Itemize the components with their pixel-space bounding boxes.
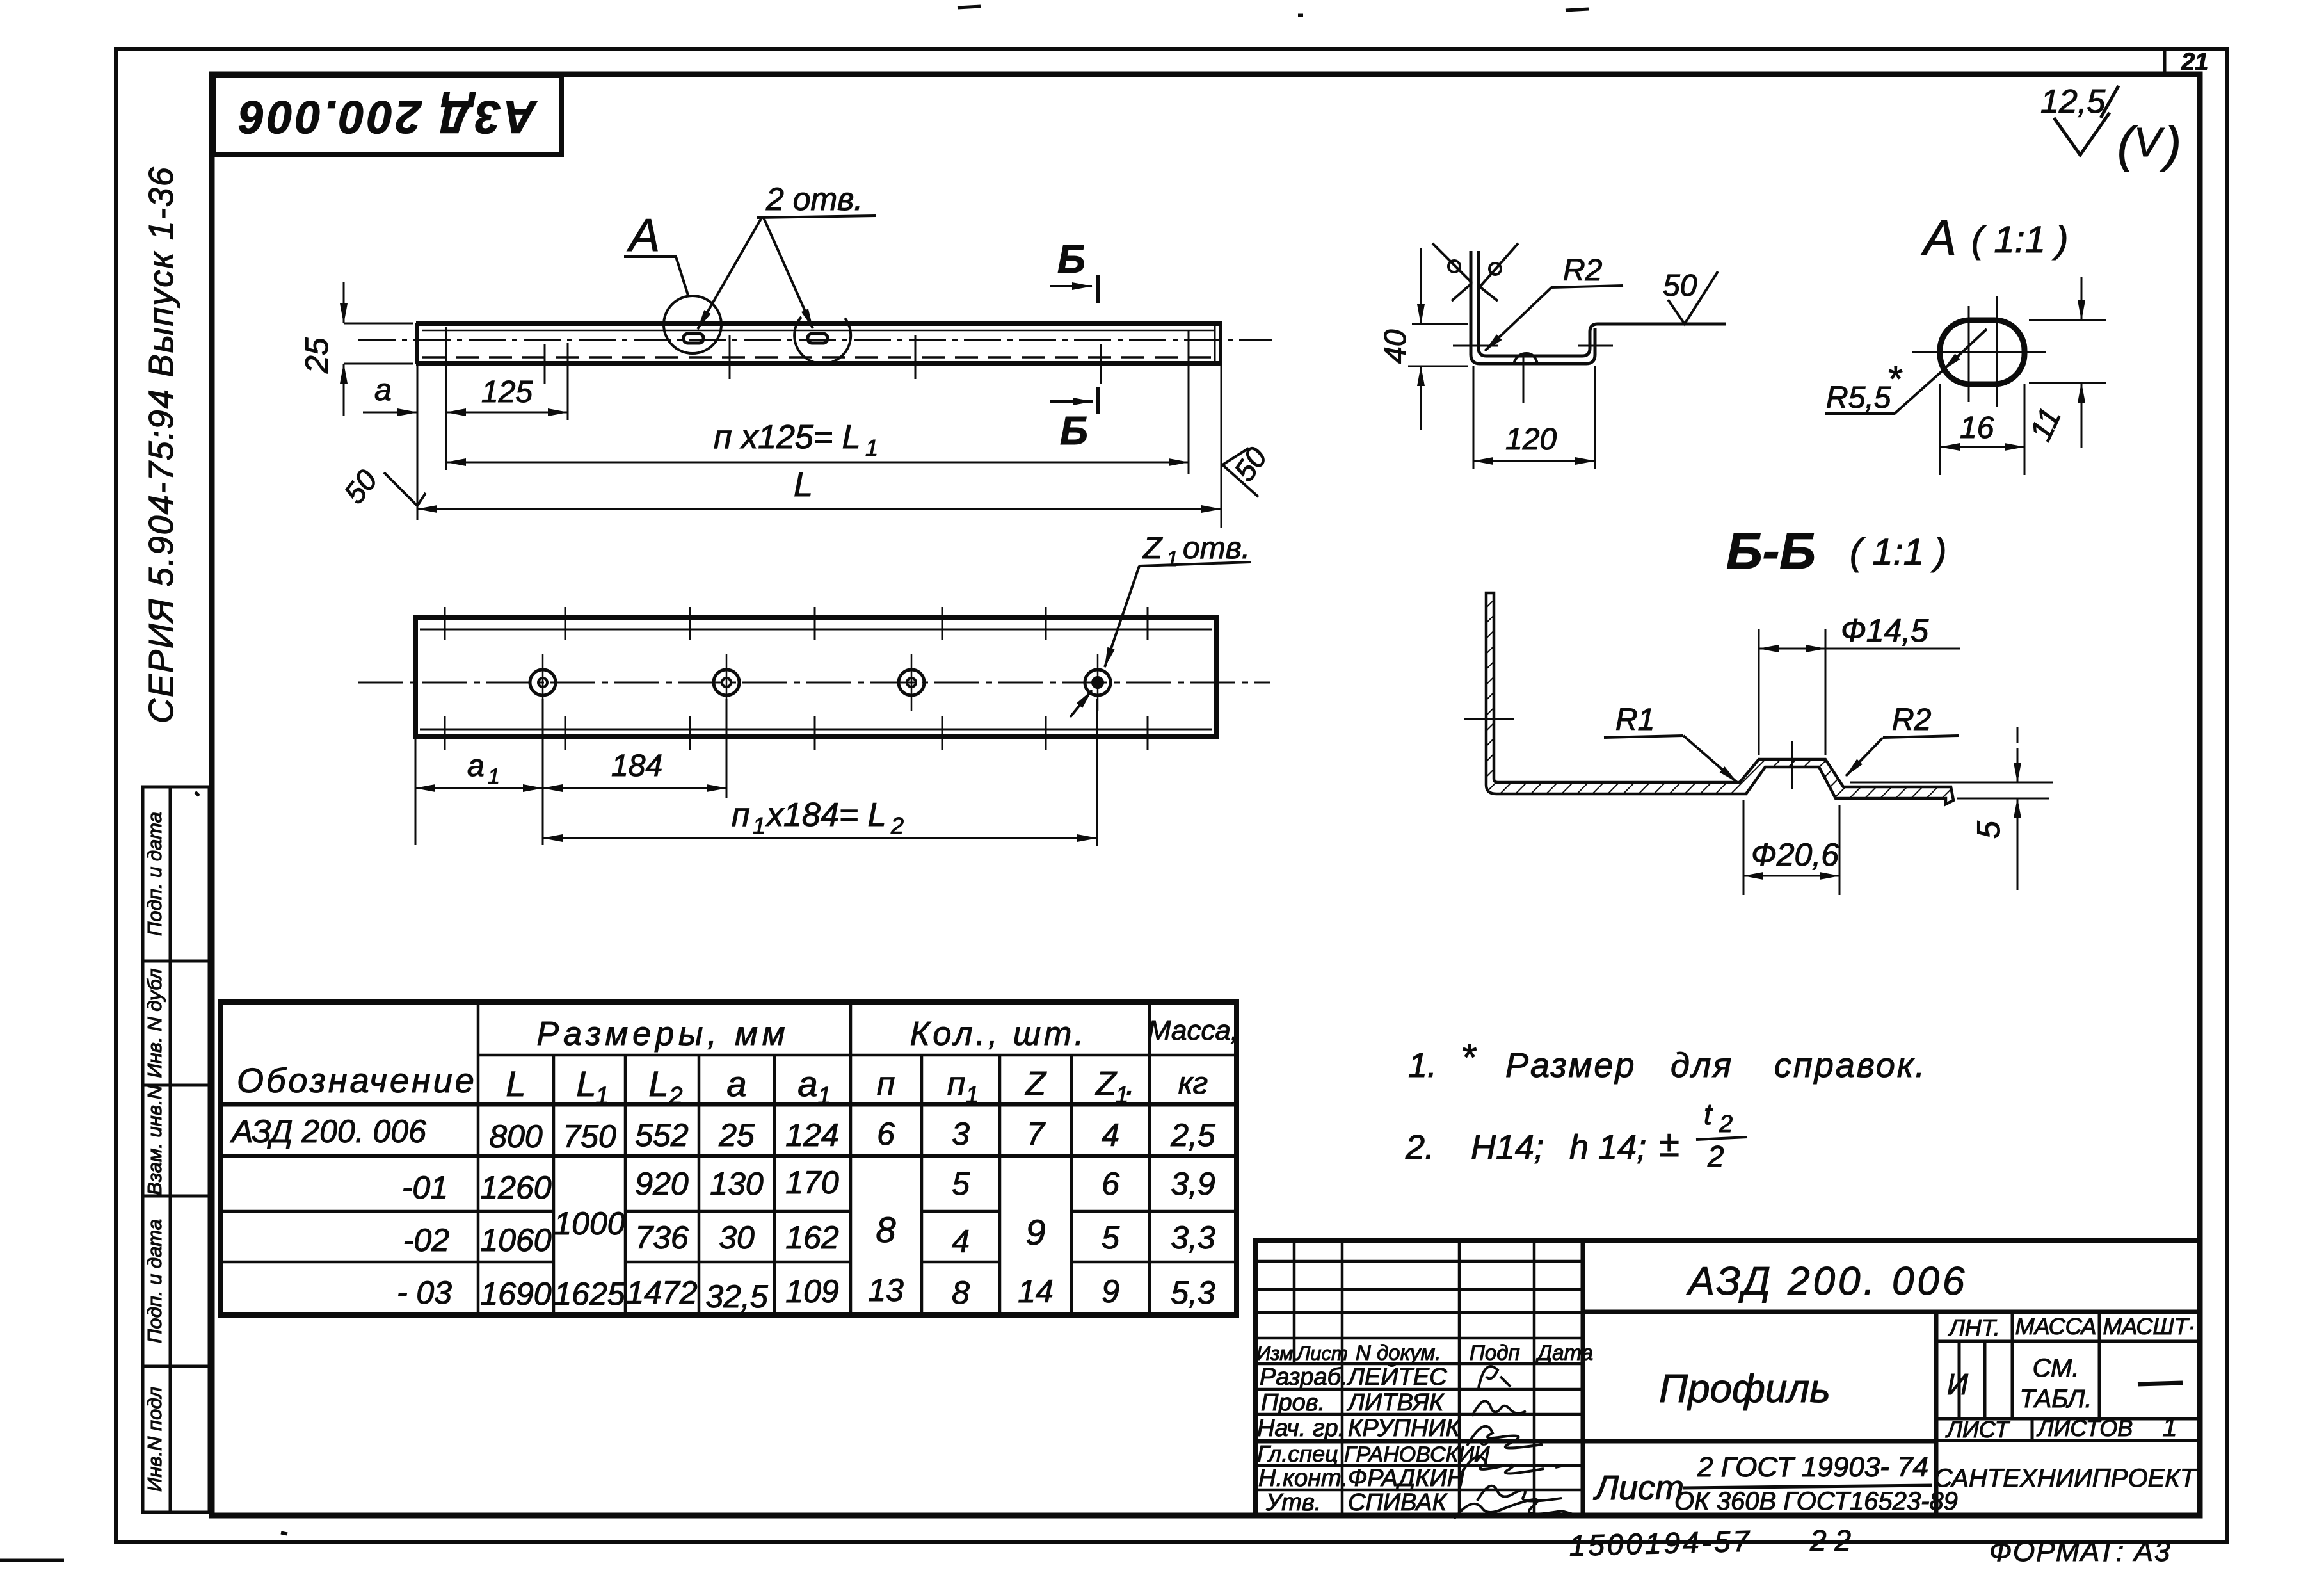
svg-text:АЗД 200. 006: АЗД 200. 006 — [1686, 1259, 1968, 1304]
svg-text:Z: Z — [1024, 1065, 1047, 1102]
svg-text:170: 170 — [785, 1165, 839, 1200]
svg-text:2: 2 — [1707, 1140, 1724, 1173]
svg-text:Z: Z — [1142, 531, 1163, 565]
svg-text:R1: R1 — [1615, 703, 1655, 737]
svg-text:( 1:1 ): ( 1:1 ) — [1971, 219, 2069, 261]
svg-text:Гл.спец: Гл.спец — [1257, 1441, 1338, 1467]
svg-text:1: 1 — [1166, 547, 1178, 571]
svg-text:2: 2 — [1719, 1111, 1733, 1138]
svg-text:1.: 1. — [1408, 1046, 1437, 1085]
svg-text:Б: Б — [1057, 238, 1086, 282]
svg-text:ЛЕЙТЕС: ЛЕЙТЕС — [1346, 1362, 1447, 1391]
svg-text:Подп: Подп — [1470, 1341, 1520, 1364]
svg-text:R2: R2 — [1563, 254, 1602, 287]
svg-text:1000: 1000 — [554, 1206, 625, 1241]
svg-text:12,5: 12,5 — [2040, 83, 2106, 120]
svg-text:184: 184 — [611, 749, 662, 783]
svg-text:L: L — [794, 465, 813, 504]
svg-text:Утв.: Утв. — [1265, 1489, 1321, 1516]
svg-text:130: 130 — [710, 1166, 764, 1202]
svg-text:t: t — [1704, 1097, 1713, 1131]
svg-text:5: 5 — [1102, 1220, 1119, 1256]
svg-text:2,5: 2,5 — [1170, 1117, 1215, 1153]
svg-text:552: 552 — [635, 1117, 689, 1153]
svg-text:( 1:1 ): ( 1:1 ) — [1850, 531, 1947, 573]
svg-text:1690: 1690 — [480, 1276, 551, 1312]
svg-text:Размеры, мм: Размеры, мм — [537, 1015, 790, 1053]
svg-text:16: 16 — [1960, 411, 1994, 445]
svg-text:А: А — [1921, 209, 1957, 266]
svg-text:отв.: отв. — [1183, 531, 1250, 565]
svg-text:ЛНТ.: ЛНТ. — [1948, 1314, 1999, 1341]
svg-text:кг: кг — [1178, 1067, 1208, 1101]
svg-text:Взам. инв.N: Взам. инв.N — [143, 1085, 166, 1195]
svg-text:124: 124 — [785, 1117, 838, 1153]
svg-text:h 14;: h 14; — [1569, 1128, 1646, 1167]
svg-text:1625: 1625 — [554, 1276, 625, 1312]
svg-text:ЛИТВЯК: ЛИТВЯК — [1346, 1389, 1445, 1416]
svg-text:3,9: 3,9 — [1171, 1166, 1215, 1202]
svg-text:Z: Z — [1094, 1065, 1118, 1102]
svg-text:ФРАДКИН: ФРАДКИН — [1348, 1465, 1465, 1492]
svg-text:Изм: Изм — [1256, 1342, 1294, 1364]
svg-text:1: 1 — [595, 1083, 609, 1110]
svg-text:Лист: Лист — [1295, 1342, 1348, 1364]
svg-text:А: А — [627, 210, 660, 261]
svg-text:*: * — [1887, 359, 1903, 400]
svg-text:8: 8 — [952, 1275, 970, 1311]
svg-text:1: 1 — [966, 1081, 979, 1108]
svg-text:N докум.: N докум. — [1356, 1341, 1441, 1364]
svg-text:- 03: - 03 — [397, 1275, 452, 1311]
svg-text:Масса,: Масса, — [1148, 1015, 1238, 1046]
svg-text:а: а — [374, 373, 392, 407]
svg-text:А3Д 200.006: А3Д 200.006 — [237, 91, 538, 142]
svg-text:3: 3 — [952, 1116, 970, 1152]
svg-text:1: 1 — [753, 812, 765, 839]
svg-text:4: 4 — [952, 1224, 970, 1259]
svg-text:125: 125 — [481, 375, 533, 409]
svg-text:ОК 360В ГОСТ16523-89: ОК 360В ГОСТ16523-89 — [1674, 1487, 1958, 1515]
svg-text:-01: -01 — [402, 1170, 448, 1206]
svg-text:3,3: 3,3 — [1171, 1220, 1215, 1256]
svg-text:Дата: Дата — [1535, 1341, 1593, 1364]
svg-text:Подп. и дата: Подп. и дата — [143, 1219, 166, 1343]
svg-text:2 ГОСТ 19903- 74: 2 ГОСТ 19903- 74 — [1697, 1451, 1928, 1483]
svg-text:5: 5 — [1971, 821, 2007, 839]
svg-text:1: 1 — [865, 435, 878, 461]
svg-text:L: L — [506, 1063, 525, 1104]
svg-text:Б-Б: Б-Б — [1726, 522, 1816, 579]
svg-text:1500194-57: 1500194-57 — [1569, 1524, 1752, 1562]
svg-text:V: V — [2134, 119, 2165, 165]
svg-text:Нач. гр.: Нач. гр. — [1257, 1415, 1345, 1442]
svg-text:50: 50 — [1663, 269, 1697, 303]
svg-text:п: п — [947, 1065, 966, 1102]
svg-text:800: 800 — [489, 1119, 543, 1154]
svg-text:а: а — [797, 1063, 817, 1104]
svg-text:МАСШТ·: МАСШТ· — [2103, 1313, 2195, 1339]
svg-text:920: 920 — [635, 1166, 689, 1202]
svg-text:Подп. и дата: Подп. и дата — [143, 812, 166, 936]
svg-text:ТАБЛ.: ТАБЛ. — [2019, 1385, 2092, 1413]
svg-text:L: L — [576, 1063, 596, 1104]
svg-text:п: п — [732, 796, 750, 834]
svg-text:5,3: 5,3 — [1171, 1275, 1215, 1311]
svg-text:Кол., шт.: Кол., шт. — [910, 1015, 1087, 1053]
svg-text:21: 21 — [2181, 49, 2208, 76]
svg-text:2: 2 — [668, 1083, 682, 1110]
svg-text:R2: R2 — [1892, 703, 1931, 737]
svg-text:Пров.: Пров. — [1261, 1389, 1325, 1416]
svg-text:L: L — [648, 1063, 668, 1104]
svg-text:ФОРМАТ: А3: ФОРМАТ: А3 — [1989, 1536, 2171, 1567]
svg-text:14: 14 — [1018, 1273, 1054, 1309]
svg-text:Инв.N подл: Инв.N подл — [143, 1387, 166, 1492]
svg-text:13: 13 — [868, 1272, 904, 1308]
svg-text:750: 750 — [563, 1119, 616, 1154]
svg-text:Ф14,5: Ф14,5 — [1841, 613, 1928, 649]
svg-text:6: 6 — [877, 1116, 895, 1152]
svg-text:СПИВАК: СПИВАК — [1348, 1489, 1448, 1516]
svg-text:1060: 1060 — [480, 1222, 551, 1258]
svg-text:2 отв.: 2 отв. — [765, 181, 863, 217]
svg-text:х184= L: х184= L — [765, 796, 886, 834]
svg-text:СЕРИЯ 5.904-75:94 Выпуск 1-36: СЕРИЯ 5.904-75:94 Выпуск 1-36 — [142, 166, 180, 723]
svg-text:1: 1 — [488, 764, 500, 789]
svg-text:6: 6 — [1102, 1166, 1119, 1202]
svg-text:109: 109 — [785, 1273, 838, 1309]
svg-text:9: 9 — [1102, 1273, 1119, 1309]
svg-text:Б: Б — [1060, 409, 1088, 453]
svg-text:Н.конт.: Н.конт. — [1258, 1465, 1348, 1492]
svg-text:2: 2 — [890, 812, 904, 839]
svg-text:а: а — [726, 1063, 746, 1104]
svg-text:1472: 1472 — [626, 1275, 697, 1311]
svg-text:1260: 1260 — [480, 1170, 551, 1206]
svg-text:Профиль: Профиль — [1659, 1367, 1831, 1411]
svg-text:7: 7 — [1027, 1116, 1046, 1152]
svg-text:R5,5: R5,5 — [1826, 381, 1891, 415]
svg-text:Инв. N дубл: Инв. N дубл — [143, 969, 166, 1078]
svg-text:2 2: 2 2 — [1809, 1524, 1851, 1557]
svg-text:ЛИСТ: ЛИСТ — [1945, 1416, 2010, 1442]
svg-text:5: 5 — [952, 1166, 970, 1202]
svg-text:1: 1 — [2162, 1412, 2177, 1442]
svg-text:30: 30 — [719, 1220, 755, 1256]
svg-text:Обозначение: Обозначение — [237, 1062, 477, 1100]
svg-text:9: 9 — [1025, 1212, 1045, 1252]
svg-text:25: 25 — [299, 337, 335, 374]
svg-text:САНТЕХНИИПРОЕКТ: САНТЕХНИИПРОЕКТ — [1934, 1464, 2197, 1492]
svg-text:ЛИСТОВ: ЛИСТОВ — [2037, 1415, 2133, 1441]
svg-text:Размер: Размер — [1505, 1046, 1636, 1085]
svg-text:а: а — [467, 749, 485, 783]
svg-text:1: 1 — [817, 1083, 831, 1110]
svg-text:736: 736 — [635, 1220, 689, 1256]
svg-text:И: И — [1947, 1368, 1968, 1401]
svg-text:п: п — [877, 1065, 895, 1102]
svg-text:32,5: 32,5 — [705, 1279, 768, 1314]
svg-text:2.: 2. — [1405, 1128, 1434, 1167]
svg-text:4: 4 — [1102, 1117, 1119, 1153]
svg-text:Н14;: Н14; — [1471, 1128, 1544, 1167]
svg-text:Ф20,6: Ф20,6 — [1751, 837, 1839, 873]
svg-text:40: 40 — [1379, 329, 1413, 364]
svg-text:*: * — [1461, 1036, 1477, 1079]
svg-text:±: ± — [1659, 1123, 1679, 1165]
svg-text:АЗД 200. 006: АЗД 200. 006 — [230, 1113, 426, 1149]
svg-text:п х125= L: п х125= L — [714, 419, 861, 456]
svg-text:Разраб.: Разраб. — [1260, 1364, 1348, 1391]
svg-text:25: 25 — [718, 1117, 755, 1153]
svg-text:-02: -02 — [403, 1222, 449, 1258]
svg-text:КРУПНИК: КРУПНИК — [1348, 1415, 1461, 1442]
svg-text:.: . — [1126, 1065, 1135, 1102]
svg-text:СМ.: СМ. — [2033, 1354, 2080, 1382]
svg-text:справок.: справок. — [1774, 1046, 1927, 1085]
svg-text:для: для — [1671, 1046, 1733, 1085]
svg-text:162: 162 — [785, 1220, 839, 1256]
svg-text:8: 8 — [876, 1209, 895, 1250]
svg-text:Лист: Лист — [1593, 1469, 1684, 1507]
svg-text:120: 120 — [1505, 423, 1557, 456]
svg-text:МАССА: МАССА — [2015, 1313, 2097, 1339]
